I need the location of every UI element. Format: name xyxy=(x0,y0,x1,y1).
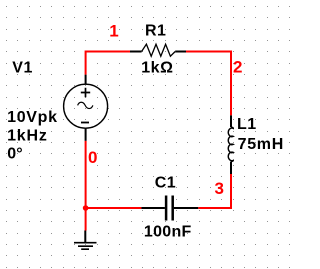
svg-text:1kΩ: 1kΩ xyxy=(141,59,173,76)
wire net 0: bottom horizontal to capacitor xyxy=(86,207,142,209)
inductor L1 top lead xyxy=(230,115,232,127)
inductor L1 bottom lead xyxy=(230,162,232,174)
source V1 circle xyxy=(64,84,108,128)
ground lead xyxy=(84,231,86,243)
source V1 minus sign xyxy=(81,122,89,124)
svg-text:10Vpk: 10Vpk xyxy=(7,109,58,126)
svg-text:1kHz: 1kHz xyxy=(7,127,48,144)
capacitor C1 plates xyxy=(166,196,173,221)
wire net 2 top-right: resistor to inductor corner xyxy=(186,52,231,116)
svg-text:1: 1 xyxy=(109,22,118,41)
capacitor C1 leads xyxy=(141,207,198,209)
junction dot node 0 xyxy=(83,205,89,211)
svg-text:V1: V1 xyxy=(12,60,33,77)
svg-text:100nF: 100nF xyxy=(144,224,192,241)
svg-text:0: 0 xyxy=(88,148,97,167)
source V1 bottom lead xyxy=(85,128,87,141)
source V1 top lead xyxy=(85,75,87,84)
svg-text:L1: L1 xyxy=(237,116,257,133)
svg-text:C1: C1 xyxy=(155,175,176,192)
resistor R1 leads xyxy=(130,51,186,53)
wire net 0: source bottom down to junction and ground xyxy=(85,141,87,231)
inductor L1 coil xyxy=(228,127,233,161)
resistor R1 zigzag xyxy=(142,44,176,56)
svg-text:R1: R1 xyxy=(145,23,166,40)
svg-text:2: 2 xyxy=(233,57,242,76)
source V1 plus sign xyxy=(81,88,90,97)
ground symbol xyxy=(74,243,97,250)
svg-text:3: 3 xyxy=(215,179,224,198)
wire net 1 top-left (node1): corner from resistor to source xyxy=(86,52,130,75)
wire net 3: capacitor to inductor corner xyxy=(198,174,231,208)
svg-text:0°: 0° xyxy=(7,146,22,163)
svg-text:75mH: 75mH xyxy=(238,136,284,153)
source V1 sine wave xyxy=(78,102,93,108)
